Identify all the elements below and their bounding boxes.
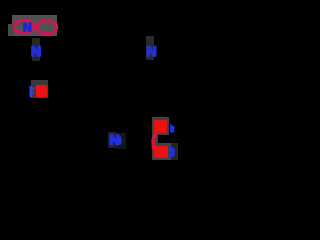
charge mark (blue) near O1 [30,86,35,97]
charge mark (blue) near O3 [170,146,175,158]
atom label halo O1 [31,80,48,98]
atom label halo N4 [108,132,117,148]
svg-text:N: N [147,43,157,59]
atom label halo (top-left group) [8,15,57,36]
svg-text:N: N [23,21,32,35]
svg-text:N: N [31,43,41,59]
atom O1 (red) [36,85,48,98]
atom O2 (red, top) [154,120,167,133]
atom O3 (red, bottom) [154,146,168,158]
red bond / connector stroke [153,131,157,150]
atom label halo O2/O3 (bottom-right group) [152,117,178,160]
atom label halo N2 [32,38,40,61]
red ellipse annotation 2 [37,21,57,34]
atom label halo N3 [146,36,154,60]
charge mark (blue) near O2 [170,124,175,133]
red ellipse annotation 1 (around N) [15,20,34,33]
charge mark (blue) near N4 [118,137,122,145]
